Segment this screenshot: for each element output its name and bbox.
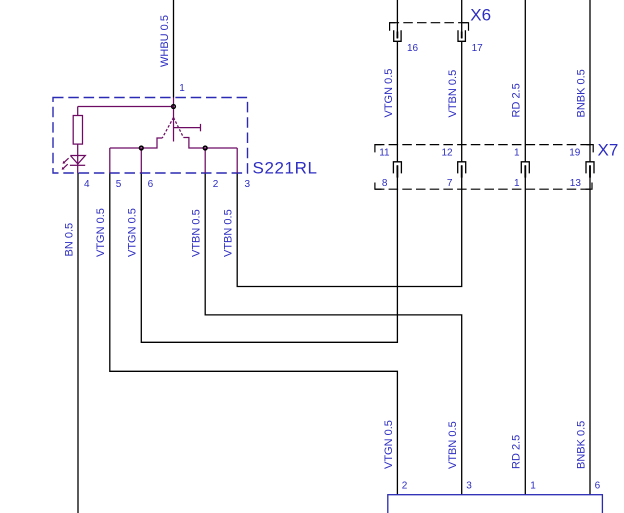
svg-text:RD 2.5: RD 2.5 (511, 83, 523, 117)
svg-text:S221RL: S221RL (253, 159, 318, 178)
svg-text:VTGN 0.5: VTGN 0.5 (127, 208, 139, 257)
svg-text:1: 1 (514, 178, 520, 189)
svg-text:12: 12 (442, 147, 454, 158)
svg-text:VTGN 0.5: VTGN 0.5 (95, 208, 107, 257)
svg-text:1: 1 (530, 481, 536, 492)
svg-text:RD 2.5: RD 2.5 (511, 435, 523, 469)
svg-text:11: 11 (379, 147, 390, 158)
svg-text:X6: X6 (470, 6, 491, 25)
svg-text:VTBN 0.5: VTBN 0.5 (447, 421, 459, 469)
svg-text:8: 8 (382, 178, 388, 189)
svg-text:5: 5 (116, 179, 122, 190)
svg-text:BNBK 0.5: BNBK 0.5 (575, 69, 587, 117)
svg-text:BN 0.5: BN 0.5 (63, 223, 75, 257)
svg-text:VTBN 0.5: VTBN 0.5 (191, 209, 203, 257)
svg-text:VTGN 0.5: VTGN 0.5 (383, 420, 395, 469)
svg-text:1: 1 (514, 147, 520, 158)
svg-text:16: 16 (407, 43, 419, 54)
svg-text:WHBU 0.5: WHBU 0.5 (159, 15, 171, 67)
svg-text:1: 1 (179, 83, 185, 94)
svg-text:6: 6 (148, 179, 154, 190)
svg-text:X7: X7 (598, 141, 619, 160)
svg-text:4: 4 (84, 179, 90, 190)
svg-text:BNBK 0.5: BNBK 0.5 (575, 421, 587, 469)
svg-text:VTBN 0.5: VTBN 0.5 (223, 209, 235, 257)
svg-text:2: 2 (213, 179, 219, 190)
svg-text:3: 3 (466, 481, 472, 492)
svg-text:3: 3 (245, 179, 251, 190)
svg-text:VTBN 0.5: VTBN 0.5 (447, 70, 459, 118)
svg-text:7: 7 (447, 178, 453, 189)
svg-text:13: 13 (570, 178, 582, 189)
svg-text:17: 17 (472, 43, 484, 54)
svg-text:2: 2 (402, 481, 408, 492)
svg-text:19: 19 (569, 147, 581, 158)
svg-text:6: 6 (595, 481, 601, 492)
svg-text:VTGN 0.5: VTGN 0.5 (383, 69, 395, 118)
